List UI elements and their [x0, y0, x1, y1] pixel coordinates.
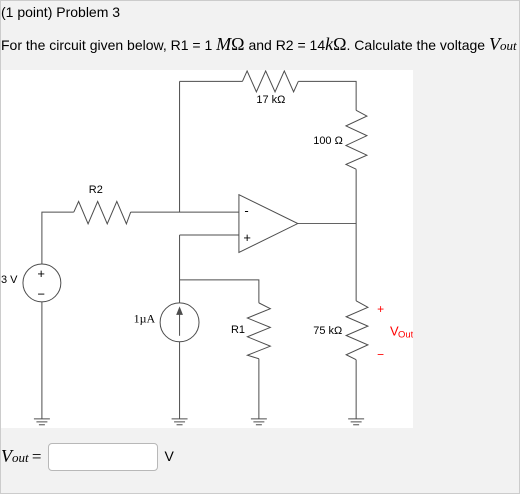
svg-text:−: −	[377, 348, 384, 362]
svg-text:1µA: 1µA	[134, 311, 156, 325]
ground left	[34, 419, 50, 425]
wire inverting input	[131, 211, 239, 213]
wire noninverting vertical	[179, 235, 181, 303]
current source arrow	[176, 306, 183, 335]
wire feedback vertical	[179, 81, 181, 212]
voltage source V1	[23, 264, 61, 302]
svg-text:100 Ω: 100 Ω	[313, 135, 343, 147]
resistor R2	[74, 201, 131, 223]
ground right	[348, 419, 364, 425]
svg-text:R1: R1	[231, 324, 245, 336]
svg-text:+: +	[243, 230, 251, 245]
wire right middle	[355, 169, 357, 301]
current source I1	[160, 303, 199, 342]
svg-text:3 V: 3 V	[1, 274, 18, 286]
wire feedback top horizontal left	[180, 80, 243, 82]
svg-text:+: +	[37, 266, 45, 281]
wire current source bottom	[179, 342, 181, 419]
svg-text:17 kΩ: 17 kΩ	[256, 94, 285, 106]
svg-text:75 kΩ: 75 kΩ	[313, 325, 342, 337]
wire output	[298, 223, 356, 225]
resistor 75k	[346, 301, 368, 360]
ground R1	[251, 419, 267, 425]
svg-text:-: -	[244, 203, 248, 218]
wire node to R1	[180, 280, 259, 303]
svg-text:R2: R2	[89, 184, 103, 196]
wire source to R2	[42, 212, 74, 264]
wire top right corner	[298, 81, 356, 110]
svg-text:−: −	[37, 286, 45, 301]
ground middle	[172, 419, 188, 425]
wire source bottom	[41, 302, 43, 419]
svg-text:Out: Out	[398, 329, 413, 340]
resistor R 17k	[242, 71, 298, 92]
wire noninverting input	[180, 234, 239, 236]
svg-text:+: +	[377, 302, 384, 316]
resistor R1	[247, 303, 270, 359]
wire right bottom	[355, 360, 357, 419]
wire R1 bottom	[258, 359, 260, 419]
op-amp U1	[239, 195, 298, 253]
resistor 100 Ohm	[346, 110, 367, 169]
